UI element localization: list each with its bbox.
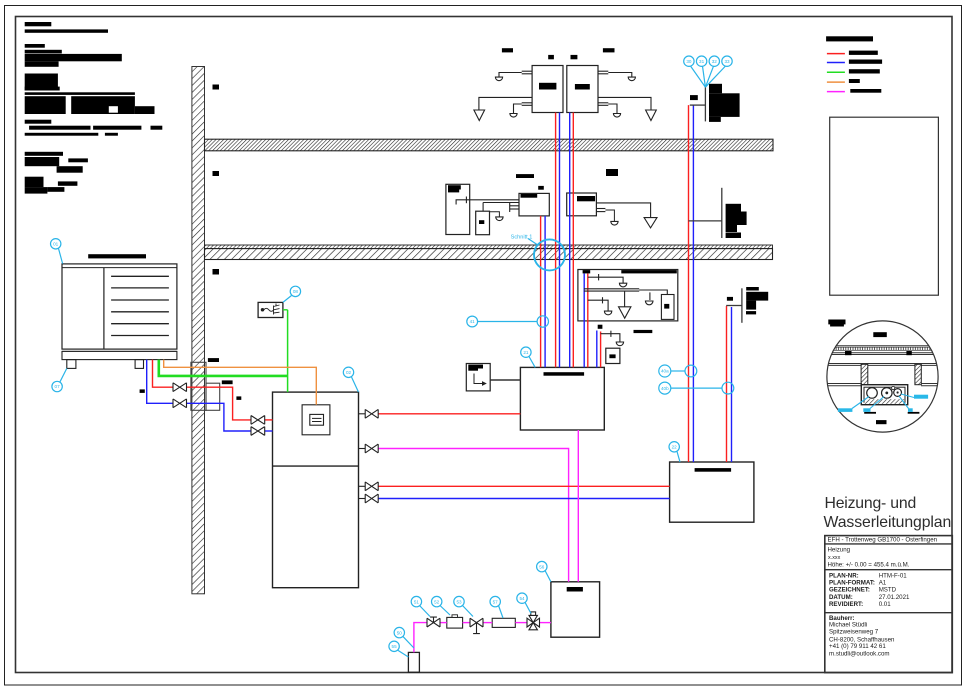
- svg-text:33: 33: [724, 59, 730, 64]
- svg-text:HTM-F-01: HTM-F-01: [879, 572, 908, 579]
- svg-text:A1: A1: [879, 580, 887, 587]
- svg-text:52: 52: [434, 599, 440, 604]
- svg-text:54: 54: [519, 596, 525, 601]
- svg-text:40a: 40a: [661, 369, 669, 374]
- svg-text:40b: 40b: [661, 386, 669, 391]
- svg-text:x.xxx: x.xxx: [828, 555, 841, 561]
- svg-text:41: 41: [470, 319, 476, 324]
- svg-text:51: 51: [414, 599, 420, 604]
- svg-text:55: 55: [392, 644, 398, 649]
- svg-text:Heizung- und: Heizung- und: [825, 495, 917, 512]
- svg-text:57: 57: [493, 599, 499, 604]
- svg-text:0.01: 0.01: [879, 601, 892, 608]
- svg-text:01: 01: [53, 242, 59, 247]
- svg-text:PLAN-FORMAT:: PLAN-FORMAT:: [829, 580, 875, 587]
- svg-text:56: 56: [539, 564, 545, 569]
- svg-text:02: 02: [346, 370, 352, 375]
- svg-text:m.studli@outlook.com: m.studli@outlook.com: [829, 651, 890, 658]
- svg-text:REVIDIERT:: REVIDIERT:: [829, 601, 863, 608]
- svg-text:31: 31: [699, 59, 705, 64]
- svg-text:Spitzweisenweg 7: Spitzweisenweg 7: [829, 629, 879, 636]
- svg-text:Heizung: Heizung: [828, 546, 851, 553]
- svg-text:PLAN-NR:: PLAN-NR:: [829, 572, 859, 579]
- svg-text:Wasserleitungplan: Wasserleitungplan: [824, 514, 952, 531]
- svg-text:DATUM:: DATUM:: [829, 594, 853, 601]
- svg-text:53: 53: [456, 599, 462, 604]
- svg-text:Höhe: +/- 0.00 = 455.4 m.ü.M.: Höhe: +/- 0.00 = 455.4 m.ü.M.: [828, 561, 910, 568]
- svg-text:MSTD: MSTD: [879, 587, 897, 594]
- svg-text:GEZEICHNET:: GEZEICHNET:: [829, 587, 870, 594]
- svg-text:50: 50: [397, 630, 403, 635]
- svg-text:08: 08: [293, 289, 299, 294]
- svg-text:30: 30: [686, 59, 692, 64]
- svg-text:07: 07: [55, 384, 61, 389]
- svg-text:32: 32: [712, 59, 718, 64]
- svg-text:Schnitt 1: Schnitt 1: [511, 235, 533, 241]
- svg-text:27.01.2021: 27.01.2021: [879, 594, 910, 601]
- svg-text:22: 22: [672, 445, 678, 450]
- svg-text:EFH - Trottenweg GB1700 - Oste: EFH - Trottenweg GB1700 - Osterfingen: [828, 537, 938, 544]
- svg-text:+41 (0) 79 911 42 61: +41 (0) 79 911 42 61: [829, 643, 886, 650]
- svg-text:21: 21: [523, 350, 529, 355]
